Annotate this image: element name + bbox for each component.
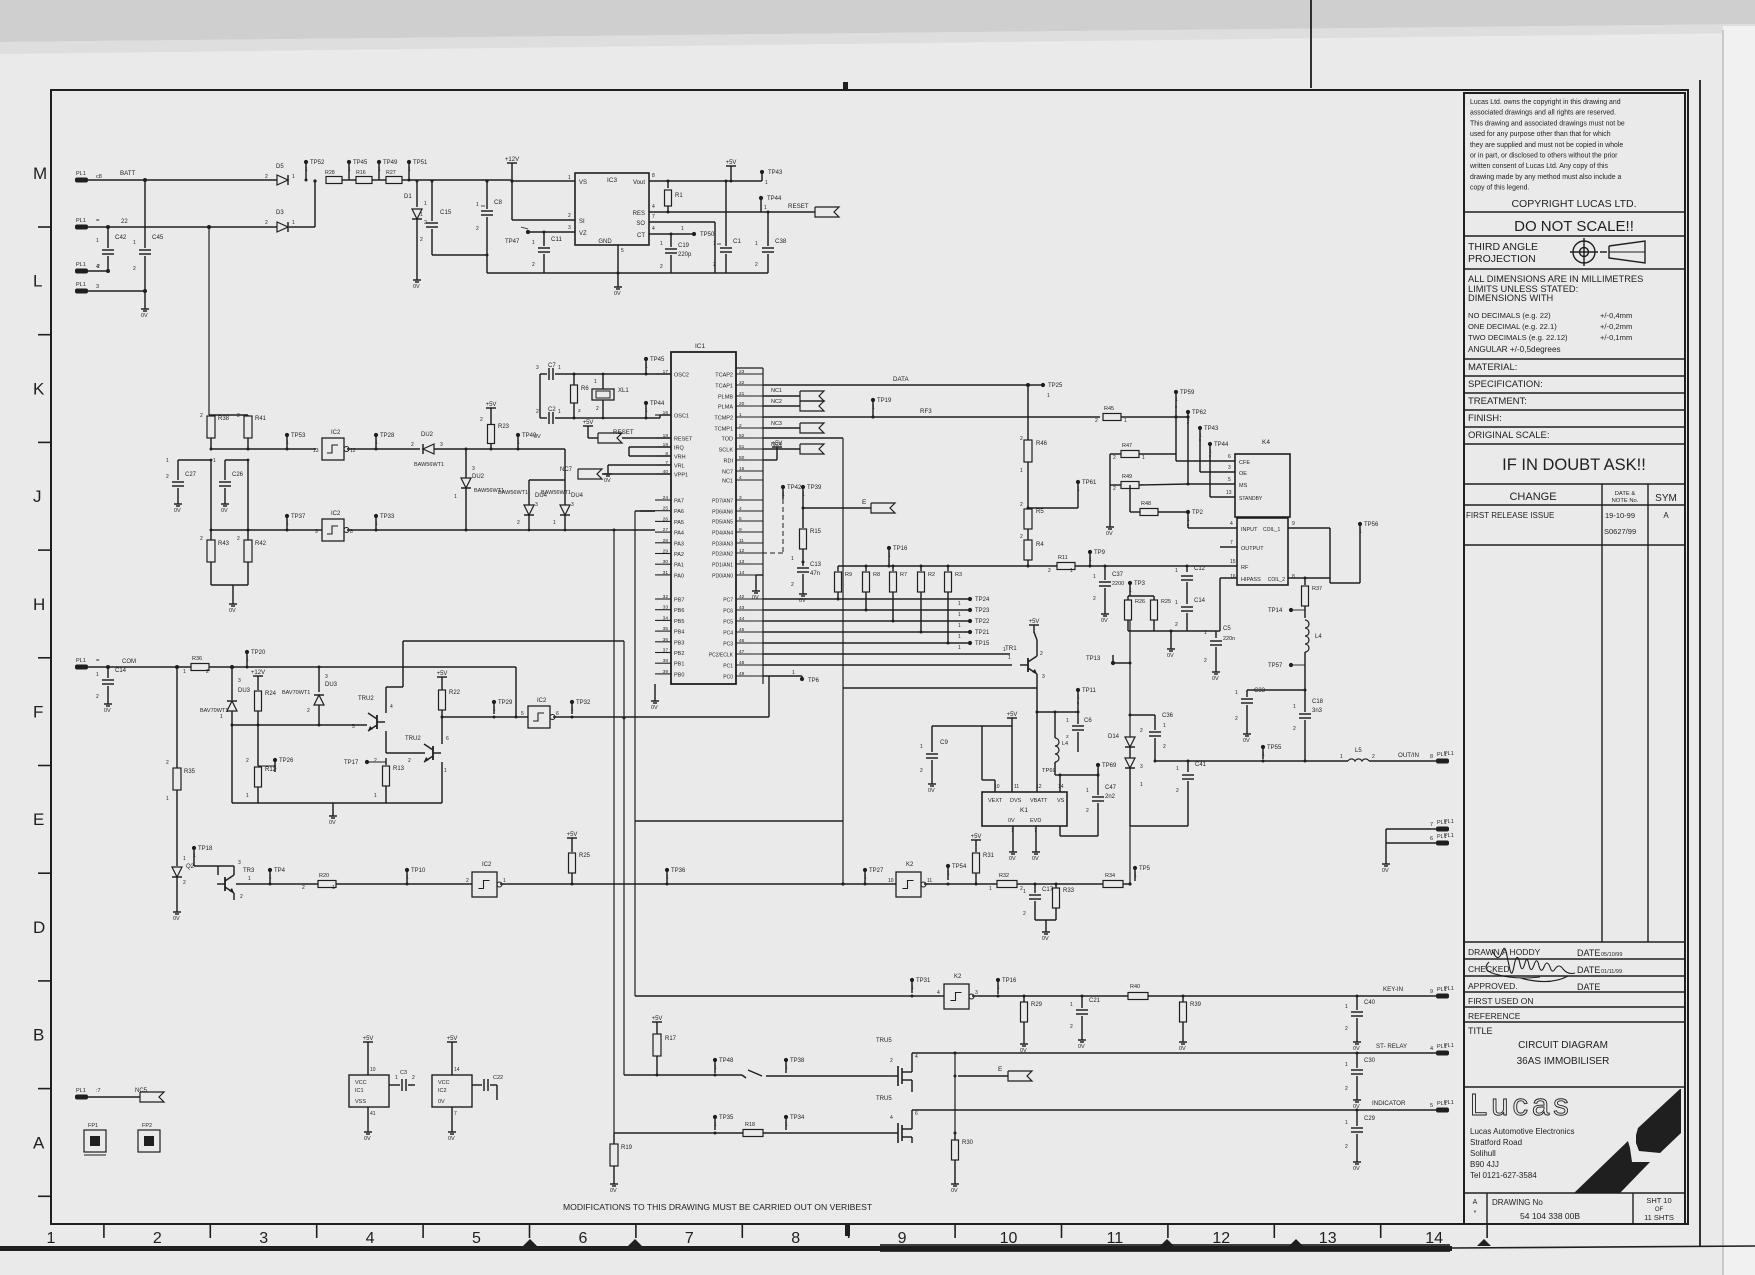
wire row2 west drop [613,530,615,1133]
svg-text:TP2: TP2 [1192,510,1204,516]
connector PL1 pin 6 [1436,841,1449,846]
svg-text:12: 12 [1212,1230,1230,1247]
svg-text:TP25: TP25 [1048,383,1063,389]
svg-text:1: 1 [1345,1062,1348,1068]
svg-text:OUTPUT: OUTPUT [1241,546,1264,552]
svg-text:6: 6 [915,1111,918,1117]
diode D5 [277,175,288,185]
svg-text:0V: 0V [141,313,148,319]
wire TR1 emitter down [1036,674,1038,688]
svg-text:OSC2: OSC2 [674,373,689,379]
diode DU2a [423,444,434,454]
svg-text:C1: C1 [733,238,741,245]
svg-text:R36: R36 [192,656,202,662]
test point TP55 [1261,745,1265,749]
svg-text:2: 2 [1140,728,1143,734]
svg-text:11: 11 [927,878,932,884]
regulator IC3 [575,173,649,245]
svg-text:R1: R1 [675,193,683,199]
svg-text:VEXT: VEXT [988,798,1003,804]
svg-text:PC1: PC1 [723,664,733,670]
power +5V RDI [763,459,777,461]
svg-text:TP14: TP14 [1268,608,1283,614]
svg-text:1: 1 [681,226,684,232]
ground below Q2 [176,908,178,912]
svg-text:13: 13 [1226,490,1232,496]
svg-text:K2: K2 [906,862,914,868]
wire PB rail to bottom rows [654,676,656,690]
svg-text:C12: C12 [1194,566,1206,572]
svg-text:1: 1 [424,201,427,207]
schmitt gate K2b [944,984,969,1009]
svg-text:TP53: TP53 [291,433,306,439]
svg-text:TP42: TP42 [787,485,802,491]
wire K2a out [924,883,997,885]
test point TP9 [1088,550,1092,554]
ground K1 EVD [1035,826,1037,848]
svg-text:1: 1 [558,409,561,415]
svg-text:PL1: PL1 [1444,819,1454,825]
test point TP18 [192,846,196,850]
wire IC2c column joints [623,717,626,720]
wire vertical D14 feed [1129,620,1131,737]
svg-text:PB7: PB7 [674,598,684,604]
wire COIL_2 node [1288,577,1330,579]
test point TP42 [781,485,785,489]
svg-text:C14: C14 [1194,598,1206,604]
svg-text:1: 1 [454,494,457,500]
test point TP54 [946,864,950,868]
svg-text:2: 2 [1293,726,1296,732]
svg-text:R24: R24 [265,691,277,697]
ground below C45 [144,291,146,305]
test point TP17 [365,760,369,764]
svg-text:R49: R49 [1122,474,1132,480]
test point TP25 [1041,383,1045,387]
svg-text:R32: R32 [999,873,1009,879]
svg-text:VRL: VRL [674,464,685,470]
capacitor C47 2n2 [1097,775,1099,795]
svg-text:C29: C29 [1364,1116,1376,1122]
svg-text:R5: R5 [1036,509,1044,515]
capacitor C15 [431,181,433,221]
capacitor C29 [1356,1109,1359,1112]
capacitor C11 [543,232,545,246]
svg-text:*: * [1474,1210,1477,1217]
svg-text:=: = [96,218,100,224]
svg-text:TP36: TP36 [671,868,686,874]
svg-text:S0627/99: S0627/99 [1604,527,1636,536]
svg-text:2: 2 [206,669,209,675]
svg-text:C30: C30 [1364,1058,1376,1064]
svg-text:0V: 0V [1101,618,1108,624]
svg-text:2: 2 [1204,658,1207,664]
test point TP39 [801,485,805,489]
wire row1 drop to DU4 rail [564,449,566,480]
capacitor C6 [1077,712,1079,724]
svg-text:PL1: PL1 [76,658,86,664]
svg-text:9: 9 [898,1230,907,1247]
svg-text:1: 1 [1070,568,1073,574]
wire IC2c out to PC0 [553,716,769,718]
svg-text:5: 5 [521,711,524,717]
power +5V above Vout [726,165,736,167]
test point TP45 [347,160,351,164]
svg-text:TP50: TP50 [700,232,715,238]
svg-text:VZ: VZ [579,231,587,237]
flag E2 [955,1075,1008,1077]
wire R26 R25 C14 bottom rail [1128,630,1187,632]
svg-text:L: L [33,272,42,291]
capacitor C36 [1154,722,1156,730]
resistor R12 [257,725,259,765]
wire IC2a out [347,448,420,450]
svg-text:6: 6 [446,736,449,742]
svg-text:1: 1 [594,379,597,385]
transistor TRU2 [424,744,441,762]
svg-text:0V: 0V [1382,868,1389,874]
svg-text:BAW56WT1: BAW56WT1 [414,462,444,468]
svg-text:TP51: TP51 [413,160,428,166]
svg-text:TWO DECIMALS (e.g. 22.12): TWO DECIMALS (e.g. 22.12) [1468,333,1568,342]
diode DU3b [314,695,324,705]
test point TP11 [1076,688,1080,692]
ground below VCC IC1 [367,1128,369,1132]
svg-text:R16: R16 [356,170,366,176]
wire IC3 SI from +12V riser [512,219,575,221]
svg-text:R43: R43 [218,541,230,547]
svg-text:1: 1 [286,440,289,446]
connector PL1 pin c8 [75,178,88,183]
svg-text:1: 1 [1187,517,1190,523]
resistor R20 [318,881,336,888]
svg-text:Tel 0121-627-3584: Tel 0121-627-3584 [1470,1171,1537,1180]
svg-text:R4: R4 [1036,542,1044,548]
svg-text:2: 2 [1113,455,1116,461]
svg-text:VS: VS [579,180,587,186]
wire to R34 [1056,883,1103,885]
svg-text:0V: 0V [534,434,541,440]
svg-text:TITLE: TITLE [1468,1026,1493,1036]
Lucas logo flash lower band [1574,1141,1650,1193]
svg-text:+5V: +5V [437,671,448,677]
svg-text:0V: 0V [610,1188,617,1194]
resistor R17 [652,1021,662,1023]
resistor R23 [486,407,496,409]
test point TP19 [871,398,875,402]
svg-text:3: 3 [238,678,241,684]
wire TRU2 emitter down [441,762,443,775]
capacitor C38 [767,212,769,246]
test point TP51 [407,160,411,164]
test point TP29 [492,700,496,704]
svg-text:+5V: +5V [1007,712,1018,718]
svg-text:+5V: +5V [772,441,783,447]
svg-text:2: 2 [166,474,169,480]
wire COIL_1 [1288,527,1330,529]
svg-text:7: 7 [1230,540,1233,546]
svg-text:1: 1 [1077,487,1080,493]
svg-text:PA0: PA0 [674,573,684,579]
svg-text:CHANGE: CHANGE [1509,491,1556,503]
svg-text:COIL_2: COIL_2 [1268,577,1285,583]
svg-text:PB6: PB6 [674,608,684,614]
test point TP56 [1358,522,1362,526]
svg-text:MATERIAL:: MATERIAL: [1468,362,1517,373]
svg-text:IC2: IC2 [331,430,341,436]
svg-text:1: 1 [958,645,961,651]
svg-text:1: 1 [1359,529,1362,535]
svg-text:C2: C2 [548,407,556,413]
ground IC3 pin5 [617,245,619,283]
svg-text:0V: 0V [928,788,935,794]
resistor R19 [613,1133,615,1144]
svg-text:R25: R25 [579,853,591,859]
schmitt gate IC2a [322,438,344,460]
svg-text:TP38: TP38 [790,1058,805,1064]
svg-text:1: 1 [714,1122,717,1128]
resistor R42 [247,460,249,540]
wire BATT rail [88,179,277,181]
ground below C14 com [107,700,109,704]
svg-text:1: 1 [193,853,196,859]
test point TP59 [1174,390,1178,394]
svg-text:DIMENSIONS WITH: DIMENSIONS WITH [1468,293,1553,303]
svg-text:IC1: IC1 [695,343,706,350]
diode DU3a [231,667,233,700]
svg-text:1: 1 [166,458,169,464]
wire TR1 emitter to K1 [1036,688,1038,712]
svg-text:1: 1 [213,458,216,464]
svg-text:INDICATOR: INDICATOR [1372,1100,1406,1107]
svg-text:VSS: VSS [355,1099,366,1105]
svg-text:TP18: TP18 [198,846,213,852]
test point TP43 [760,170,764,174]
wire K4 CFE [1176,460,1235,462]
resistor R9 [837,566,839,571]
capacitor C1 [725,181,727,246]
test point TP62 [1186,410,1190,414]
svg-text:1: 1 [1023,889,1026,895]
svg-text:TP33: TP33 [380,514,395,520]
svg-text:0V: 0V [604,478,611,484]
svg-text:TP22: TP22 [975,619,990,625]
svg-text:+5V: +5V [567,832,578,838]
svg-text:BAW56WT1: BAW56WT1 [498,490,528,496]
svg-text:IC3: IC3 [607,177,618,184]
svg-text:0V: 0V [1078,1044,1085,1050]
svg-text:1: 1 [1340,754,1343,760]
svg-text:+5V: +5V [726,160,737,166]
svg-text:1: 1 [1077,695,1080,701]
svg-text:C7: C7 [548,363,556,369]
capacitor C12 [1186,566,1188,572]
svg-text:TP24: TP24 [975,597,990,603]
wire box around lower-left [613,717,615,719]
svg-text:K1: K1 [1020,807,1028,814]
resistor R13 [385,760,387,765]
svg-text:TP11: TP11 [1082,688,1097,694]
svg-text:11: 11 [1107,1230,1124,1247]
svg-text:2: 2 [920,768,923,774]
svg-text:TP6: TP6 [808,678,820,684]
dual diode D14 lower [1129,747,1131,758]
svg-text:3: 3 [1228,465,1231,471]
svg-text:2: 2 [411,442,414,448]
wire PC7 row [763,598,970,600]
svg-text:2: 2 [596,406,599,412]
svg-text:+/-0,4mm: +/-0,4mm [1600,311,1632,320]
schmitt gate K2a [896,872,921,897]
resistor R4 [1024,540,1032,560]
svg-text:VBATT: VBATT [1030,798,1048,804]
IC1 ground stem [654,684,656,697]
svg-text:2: 2 [536,409,539,415]
svg-text:2: 2 [660,264,663,270]
svg-text:DATE: DATE [1577,982,1600,992]
svg-text:APPROVED.: APPROVED. [1468,981,1518,991]
svg-text:D1: D1 [404,194,412,200]
test point TP61 [1076,480,1080,484]
capacitor C13 47n [802,562,804,566]
wire C17 R33 gnd rail [1035,919,1056,921]
resistor R45 on RF3 [1103,414,1121,421]
svg-text:2: 2 [1113,486,1116,492]
svg-text:1: 1 [493,707,496,713]
wire loop rail above K2 row [635,820,843,822]
svg-text:3: 3 [571,502,574,508]
svg-text:+5V: +5V [486,402,497,408]
svg-text:0V: 0V [1106,531,1113,537]
svg-text:1: 1 [864,875,867,881]
inductor L4 [1305,620,1309,652]
ground cluster R26 [1170,631,1172,645]
svg-text:R41: R41 [255,416,267,422]
svg-text:STANDBY: STANDBY [1239,496,1263,502]
svg-text:TP37: TP37 [291,514,306,520]
resistor R41 [247,415,249,416]
svg-text:IC2: IC2 [331,511,341,517]
test point TP14 [1289,608,1293,612]
svg-text:0V: 0V [1032,856,1039,862]
svg-text:This drawing and associated dr: This drawing and associated drawings mus… [1470,120,1625,127]
svg-text:1: 1 [958,623,961,629]
svg-text:C45: C45 [152,234,164,241]
svg-text:R42: R42 [255,541,267,547]
svg-text:1: 1 [1175,600,1178,606]
wire gate row 1 [624,1074,742,1076]
resistor R25b [1151,600,1158,620]
svg-text:PL1: PL1 [1444,1043,1454,1049]
ground below C5 [1215,668,1217,672]
svg-text:R3: R3 [955,572,962,578]
svg-text:2200: 2200 [1112,581,1124,587]
bottom page shadow bar [0,1246,1452,1251]
wire R35 to Q2 [176,862,178,866]
drawn row [1464,941,1685,943]
resistor R30 [954,1132,956,1134]
svg-text:1: 1 [785,1122,788,1128]
diode DU4a [524,505,534,515]
svg-text:2: 2 [153,1230,162,1247]
svg-text:5: 5 [621,248,624,254]
svg-text:RESET: RESET [788,203,809,210]
svg-text:IC2: IC2 [438,1088,447,1094]
power +12V [507,162,517,164]
svg-text:11 SHTS: 11 SHTS [1644,1213,1674,1222]
svg-text:1: 1 [1008,655,1011,661]
svg-text:FP1: FP1 [88,1123,98,1129]
svg-text:TP31: TP31 [916,978,931,984]
svg-text:PL1: PL1 [76,282,86,288]
test point TP23 [968,608,972,612]
svg-text:2: 2 [307,708,310,714]
svg-text:RDI: RDI [724,459,734,465]
resistor R11 [1057,563,1075,570]
svg-text:R23: R23 [498,424,510,430]
svg-text:36AS IMMOBILISER: 36AS IMMOBILISER [1517,1056,1610,1067]
svg-text:R40: R40 [1130,984,1140,990]
svg-text:TP20: TP20 [251,650,266,656]
svg-text:1: 1 [286,521,289,527]
opto transistor TR3 [194,865,218,867]
svg-text:C9: C9 [940,739,948,746]
resistor R22 [437,676,447,678]
svg-text:PL1: PL1 [76,1088,86,1094]
svg-text:Lucas Automotive Electronics: Lucas Automotive Electronics [1470,1127,1575,1136]
svg-text:1: 1 [997,985,1000,991]
svg-text:4: 4 [1230,521,1233,527]
ground below R29 [1023,1040,1025,1044]
svg-text:R28: R28 [325,170,335,176]
svg-text:2: 2 [480,417,483,423]
svg-text:PD5/AN5: PD5/AN5 [712,520,733,526]
capacitor C37 2200 [1104,565,1107,568]
svg-text:01/11/99: 01/11/99 [1601,969,1622,975]
decoupling block IC2 VCC [432,1075,472,1107]
ground VRL [608,464,671,466]
svg-text:1: 1 [645,408,648,414]
resistor R46 [1027,385,1029,440]
wire K4 MS [1188,483,1235,485]
svg-text:C47: C47 [1105,785,1117,791]
svg-text:3: 3 [975,990,978,996]
svg-text:+5V: +5V [971,834,982,840]
resistor R1 [667,181,669,188]
svg-text:VPP1: VPP1 [674,473,688,479]
svg-text:DATE &: DATE & [1615,491,1636,497]
test point TP44b [1208,442,1212,446]
svg-text:1: 1 [947,871,950,877]
svg-text:2: 2 [1345,1026,1348,1032]
svg-text:FIRST USED ON: FIRST USED ON [1468,996,1534,1006]
svg-text:PLMA: PLMA [718,405,733,411]
svg-text:2: 2 [466,878,469,884]
svg-text:1: 1 [1142,455,1145,461]
wire DU3 R24 node row [232,724,340,726]
wire TR3 collector top [233,866,235,875]
svg-text:B: B [33,1026,44,1045]
wire E flag row [802,499,804,508]
svg-text:SI: SI [579,219,585,225]
svg-text:0V: 0V [329,820,336,826]
svg-text:IC2: IC2 [537,698,547,704]
connector PL1 pin 4b [1436,1051,1449,1056]
svg-text:D3: D3 [276,210,284,216]
wire gate row 1 east [766,1075,886,1077]
svg-text:2: 2 [1020,534,1023,540]
svg-text:2: 2 [578,408,581,414]
